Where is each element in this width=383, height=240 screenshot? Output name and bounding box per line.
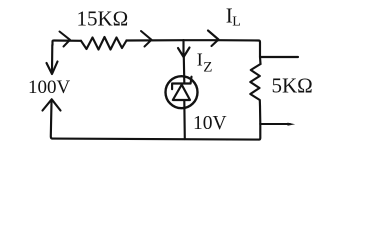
voltage source 100V label: [28, 77, 71, 98]
wire: bottom rail: [53, 139, 260, 140]
arrowhead up toward 100V label: [43, 99, 61, 110]
wire: right vertical to bottom-right corner: [259, 124, 260, 140]
wire: right vertical into load resistor: [259, 57, 262, 64]
current arrow I_Z (down): [178, 48, 190, 58]
wire: right vertical below load resistor: [259, 106, 261, 124]
current arrow on top-left wire: [60, 32, 71, 47]
label I_L: [226, 4, 241, 30]
label 5KΩ: [272, 73, 313, 97]
svg-text:L: L: [232, 15, 241, 30]
label I_Z: [197, 49, 213, 75]
resistor 5KΩ (load) zigzag: [250, 64, 260, 106]
arrowhead down toward 100V label: [47, 62, 58, 75]
svg-text:5KΩ: 5KΩ: [272, 73, 313, 97]
label 15KΩ: [77, 7, 129, 31]
wire: left vertical upper (with source arrow down): [51, 45, 53, 71]
label 10V: [193, 113, 227, 134]
svg-text:100V: 100V: [28, 77, 71, 98]
arrow tip on bottom stub: [288, 123, 296, 126]
zener diode anode triangle: [173, 85, 190, 100]
zener diode envelope circle: [166, 76, 198, 108]
svg-text:10V: 10V: [193, 113, 227, 134]
wire: top rail right segment to top-right corner: [218, 40, 260, 57]
resistor 15KΩ (series) zigzag: [81, 37, 127, 50]
svg-text:I: I: [197, 49, 203, 69]
current arrow after resistor: [141, 31, 152, 47]
wire: load branch bottom stub with arrow end: [260, 123, 290, 125]
wire: left vertical lower down to bottom rail: [51, 102, 53, 139]
svg-text:Z: Z: [203, 59, 212, 75]
svg-text:15KΩ: 15KΩ: [77, 7, 129, 31]
wire: top rail left segment (node A to resistor): [53, 41, 82, 46]
wire: top rail middle segment (resistor to zener node): [127, 39, 184, 41]
node: zener branch junction on top rail: [184, 39, 219, 41]
wire: load branch top stub: [260, 56, 298, 58]
current arrow I_L on top rail: [208, 31, 219, 47]
wire: zener branch upper lead: [182, 40, 184, 54]
wire: zener lead into circle: [183, 57, 186, 83]
zener diode cathode bar with bent tails: [172, 77, 191, 90]
wire: zener lower lead to bottom rail: [183, 100, 186, 139]
